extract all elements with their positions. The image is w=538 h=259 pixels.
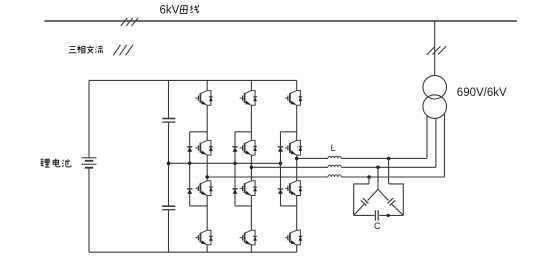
capacitor right branch plates — [388, 198, 396, 205]
wire leg1 vertical segments — [206, 80, 208, 252]
transformer T1 secondary winding — [423, 95, 447, 119]
wire capacitor tap drop B — [377, 167, 379, 189]
IGBT leg2 S4 — [240, 230, 257, 245]
IGBT leg3 S3 — [285, 181, 302, 196]
three-phase AC slashes — [113, 45, 133, 56]
node capacitor bank bottom junction — [387, 214, 390, 217]
wire left rail upper (battery +) — [88, 80, 90, 157]
node capacitor tap phase B — [376, 166, 380, 170]
IGBT leg1 S4 — [195, 230, 212, 245]
wire left rail lower (battery -) — [88, 168, 90, 253]
inductor L phase A — [328, 156, 341, 158]
node neutral at DC-link midpoint — [167, 162, 171, 166]
wire capacitor bank bottom — [354, 214, 404, 216]
capacitor bank left delta branch — [354, 189, 378, 215]
transformer drop slashes — [427, 46, 447, 55]
node phase A at leg3 — [295, 157, 299, 161]
diode leg3 clamp D1 — [278, 147, 283, 152]
capacitor bank bottom element — [375, 210, 378, 220]
wire leg1 clamp column — [190, 132, 208, 206]
wire 6kV bus — [45, 20, 518, 22]
wire DC negative bottom rail — [89, 251, 297, 253]
transformer T1 primary winding — [423, 75, 447, 99]
wire transformer lead c — [444, 114, 446, 177]
node capacitor tap phase C — [367, 175, 371, 179]
wire DC-link column middle — [168, 122, 170, 206]
node neutral clamp leg2 — [233, 162, 237, 166]
node neutral clamp leg1 — [188, 162, 192, 166]
capacitor DC-link upper — [162, 119, 175, 123]
label 母线 glyphs — [180, 5, 199, 13]
svg-text:L: L — [331, 143, 336, 153]
inductor L phase B — [328, 165, 341, 167]
svg-text:690V/6kV: 690V/6kV — [457, 87, 507, 99]
diode leg1 clamp D1 — [187, 147, 192, 152]
IGBT leg3 S1 — [285, 91, 302, 106]
wire leg2 clamp column — [235, 132, 251, 206]
svg-text:6kV: 6kV — [160, 5, 180, 17]
label 三相交流 glyphs — [69, 45, 103, 53]
IGBT leg2 S2 — [240, 140, 257, 155]
IGBT leg3 S4 — [285, 230, 302, 245]
wire DC positive top rail — [89, 79, 297, 81]
battery 锂电池 — [82, 158, 97, 168]
wire phase C line (leg1 output, bottom) — [207, 176, 444, 178]
svg-text:C: C — [374, 221, 381, 231]
wire transformer drop from bus — [434, 21, 436, 75]
wire phase B line (leg2 output, middle) — [251, 166, 436, 168]
IGBT leg1 S2 — [195, 140, 212, 155]
diode leg1 clamp D2 — [187, 189, 192, 194]
IGBT leg1 S3 — [195, 181, 212, 196]
diode leg3 clamp D2 — [278, 189, 283, 194]
wire neutral bus — [169, 162, 281, 164]
node phase C at leg1 — [205, 175, 209, 179]
bus break slashes — [121, 18, 138, 26]
IGBT leg3 S2 — [285, 140, 302, 155]
wire transformer lead b — [435, 118, 437, 167]
wire leg3 clamp column — [281, 132, 297, 206]
label 锂电池 glyphs — [40, 159, 71, 168]
wire phase A line (leg3 output, top) — [297, 157, 427, 159]
IGBT leg2 S1 — [240, 91, 257, 106]
capacitor bank C outline — [354, 184, 404, 216]
wire DC-link column upper — [168, 80, 170, 118]
wire leg3 vertical segments — [296, 80, 298, 252]
capacitor left branch plates — [361, 198, 369, 205]
wire capacitor tap drop A — [388, 158, 390, 184]
diode leg2 clamp D2 — [232, 189, 237, 194]
wire transformer lead a — [426, 115, 428, 158]
IGBT leg1 S1 — [195, 91, 212, 106]
diode leg2 clamp D1 — [232, 147, 237, 152]
capacitor bank right delta branch — [378, 189, 403, 215]
inductor L phase C — [328, 175, 341, 177]
node neutral clamp leg3 — [279, 162, 283, 166]
wire leg2 vertical segments — [250, 80, 252, 252]
wire capacitor tap drop C — [368, 177, 370, 184]
node capacitor tap phase A — [387, 157, 391, 161]
IGBT leg2 S3 — [240, 181, 257, 196]
wire DC-link column lower — [168, 210, 170, 253]
capacitor DC-link lower — [162, 206, 175, 210]
node phase B at leg2 — [250, 166, 254, 170]
